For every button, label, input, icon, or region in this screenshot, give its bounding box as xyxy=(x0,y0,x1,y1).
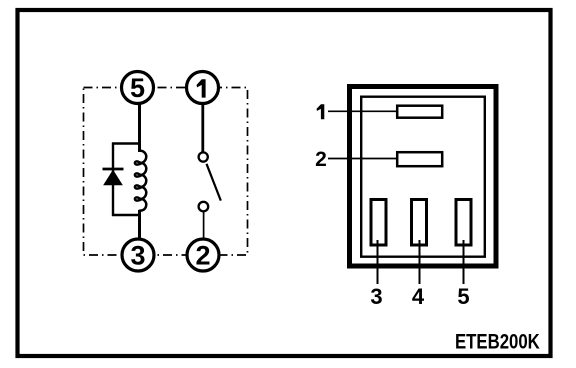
switch fixed contact (top) xyxy=(199,152,208,161)
wire 5 to coil xyxy=(138,95,141,152)
svg-text:4: 4 xyxy=(412,284,425,309)
wire switch to 2 xyxy=(203,213,205,246)
pin 1 xyxy=(397,106,442,118)
terminal circle 3 xyxy=(122,239,154,271)
svg-text:5: 5 xyxy=(457,284,469,309)
pin 3 xyxy=(371,200,386,246)
wire coil to 3 xyxy=(138,210,141,246)
relay connector outer box xyxy=(350,87,497,267)
pin 5 xyxy=(456,200,471,246)
svg-text:5: 5 xyxy=(130,73,145,103)
svg-text:3: 3 xyxy=(370,284,382,309)
leader line pin 5 xyxy=(463,240,465,284)
relay enclosure dash-dot box xyxy=(84,88,248,256)
pin 2 xyxy=(397,152,442,166)
label 1 xyxy=(317,104,325,119)
leader line to pin 1 xyxy=(328,110,397,112)
pin 4 xyxy=(412,200,427,246)
relay connector inner box xyxy=(361,97,485,257)
svg-text:ETEB200K: ETEB200K xyxy=(455,330,540,353)
switch contact (bottom) xyxy=(199,202,209,212)
leader line to pin 2 xyxy=(328,158,397,160)
terminal circle 1 xyxy=(187,72,219,104)
leader line pin 3 xyxy=(377,240,379,284)
wire diode branch vertical xyxy=(112,143,114,217)
switch blade xyxy=(207,164,221,201)
leader line pin 4 xyxy=(419,240,421,284)
svg-text:2: 2 xyxy=(315,148,327,171)
terminal circle 2 xyxy=(187,239,219,271)
terminal circle 5 xyxy=(122,72,154,104)
svg-text:3: 3 xyxy=(130,241,145,271)
coil L1 xyxy=(135,151,146,211)
diode D1 (flyback across coil) xyxy=(103,169,124,185)
wire 1 to switch contact xyxy=(201,95,204,152)
wire diode branch bottom xyxy=(112,214,141,216)
wire diode branch top xyxy=(112,142,141,144)
svg-text:2: 2 xyxy=(195,241,210,271)
